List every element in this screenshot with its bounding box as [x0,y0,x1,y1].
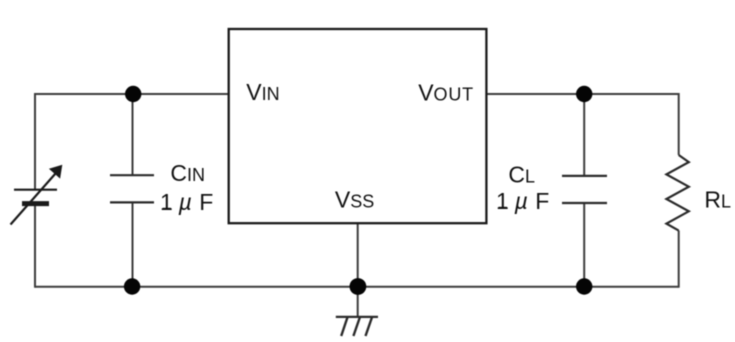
svg-text:1µF: 1µF [160,189,213,215]
ground hatch 1 [341,318,347,337]
capacitor CIN plate bottom [110,201,154,203]
source V1 variable battery plate long [14,189,57,191]
label capacitor CL value digit foot [499,207,507,209]
wire left source branch lower [34,204,36,288]
ground hatch 3 [366,318,372,337]
svg-text:RL: RL [704,187,731,213]
svg-text:VSS: VSS [335,186,374,212]
svg-text:1µF: 1µF [496,188,549,214]
ground hatch 2 [353,318,359,337]
wire RL branch upper [678,93,680,155]
wire left source branch upper [34,93,36,189]
wire CL branch upper [583,94,585,176]
wire VSS pin to ground [357,223,359,316]
ground bar [336,316,378,318]
wire top rail left (source node to VIN pin) [35,93,229,95]
source V1 variable arrow shaft [11,174,56,225]
wire top rail right (VOUT pin to load node) [486,93,678,95]
node dot ground right [576,278,592,294]
svg-text:CIN: CIN [170,160,205,186]
node dot ground center [350,278,367,295]
node dot input top (CIN to VIN) [125,86,141,102]
node dot output top (CL to VOUT) [576,86,592,102]
wire bottom ground rail [35,286,679,288]
svg-text:VOUT: VOUT [418,79,474,105]
wire CIN branch lower [132,203,134,287]
svg-text:VIN: VIN [246,79,279,105]
capacitor CL plate bottom [562,202,607,204]
op-amp U1 regulator box [229,29,487,223]
node dot ground left [124,278,140,294]
resistor RL zigzag [666,155,688,231]
source V1 variable battery plate short thick [22,201,49,206]
capacitor CL plate top [562,175,607,177]
label capacitor CIN value digit foot [163,208,171,210]
capacitor CIN plate top [110,174,154,176]
wire RL branch lower [678,231,680,288]
source V1 variable arrow head [49,165,62,179]
wire CIN branch upper [132,94,134,175]
svg-text:CL: CL [508,162,535,188]
wire CL branch lower [583,203,585,287]
